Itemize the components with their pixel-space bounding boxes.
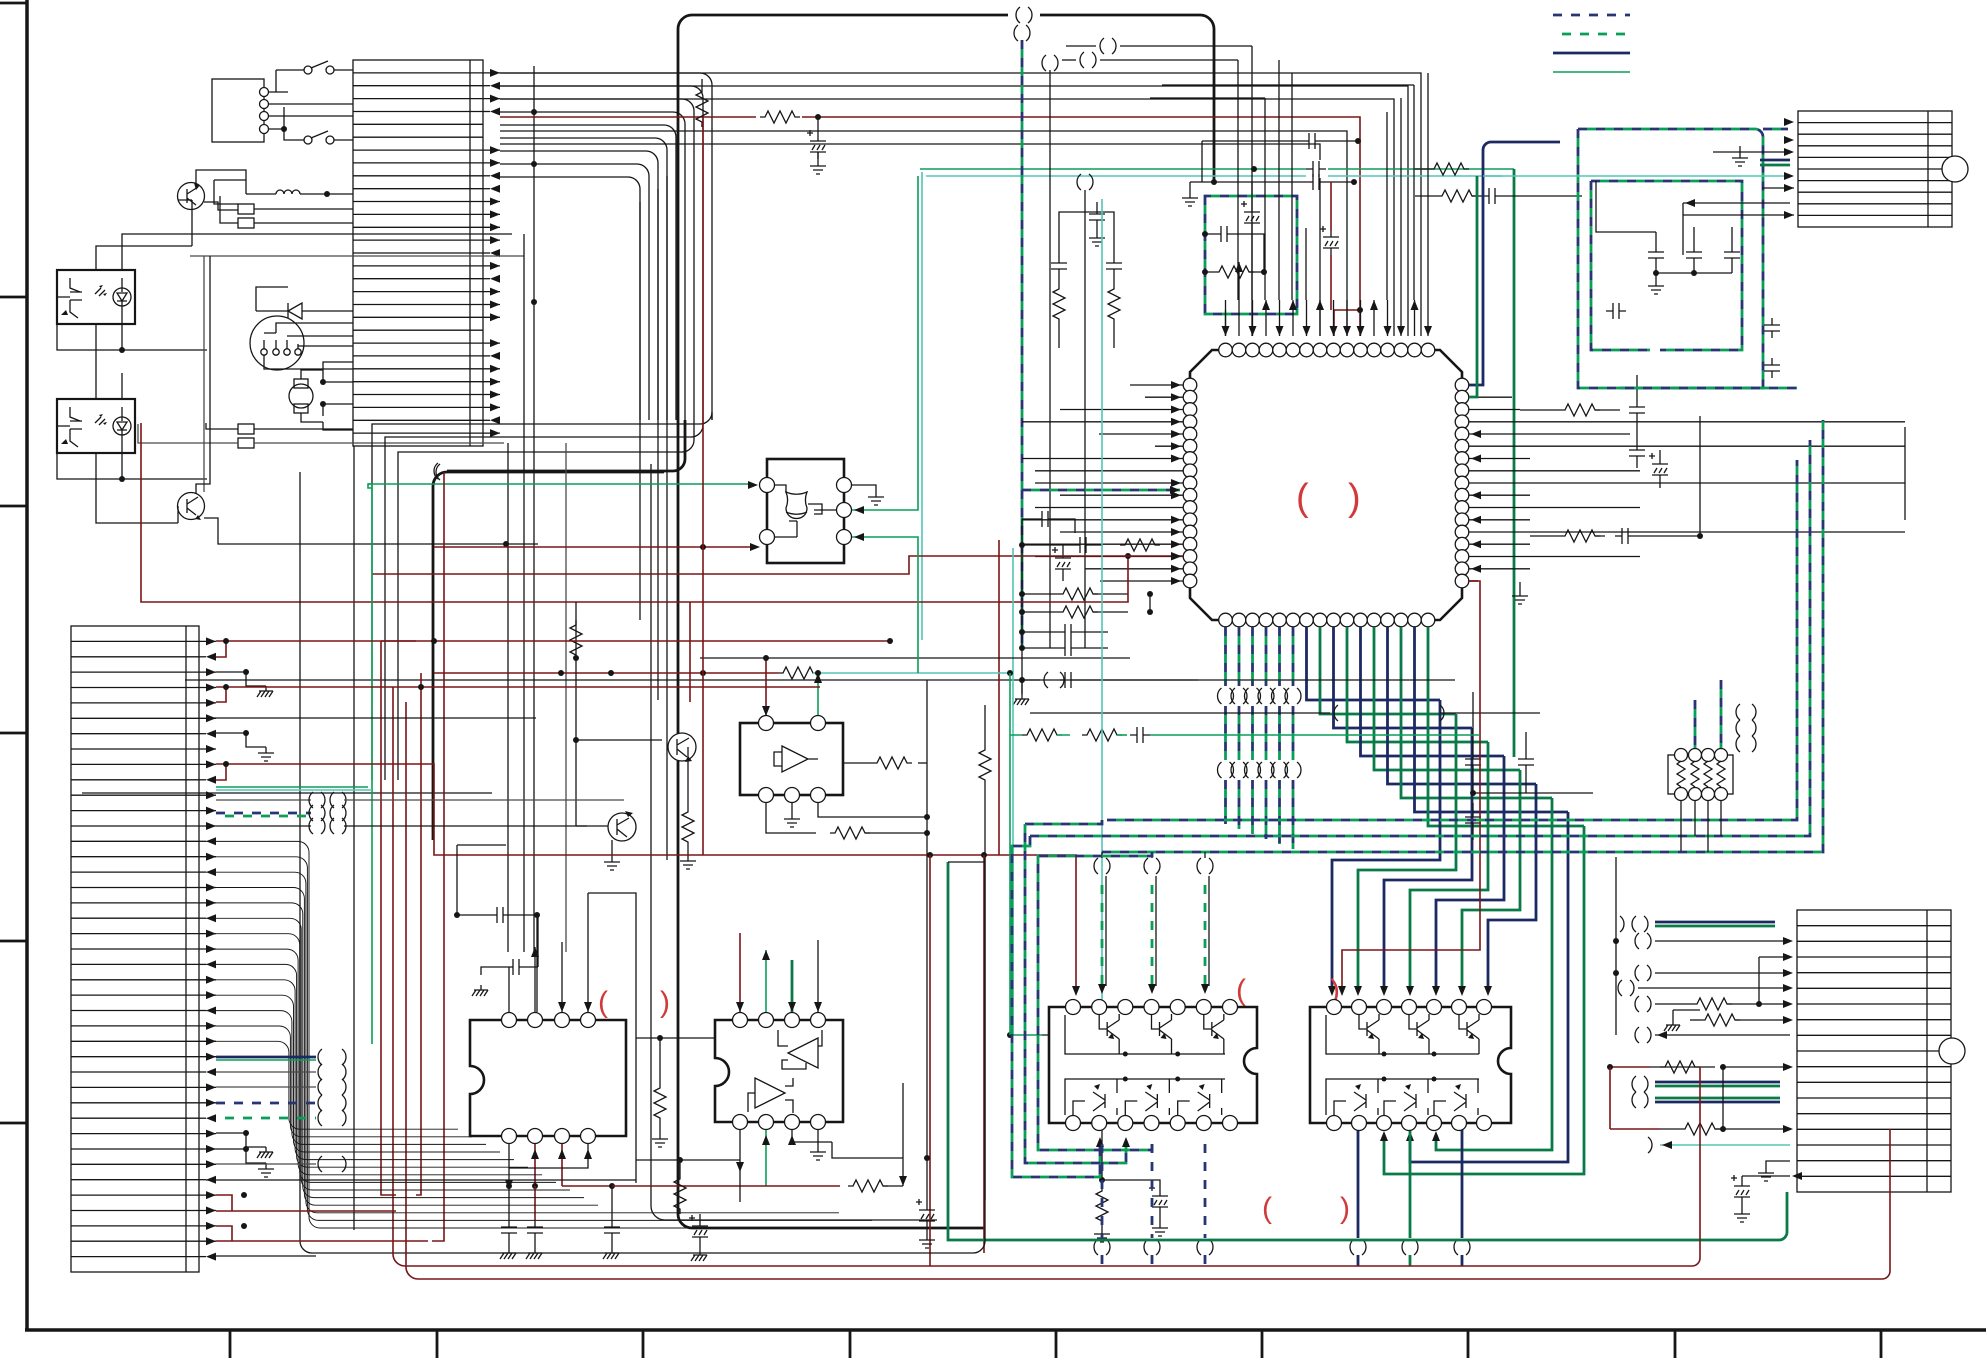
resistor R11 bbox=[766, 803, 816, 833]
optocoupler PC1 bbox=[57, 270, 135, 324]
cap C17 bbox=[1058, 624, 1078, 640]
node U3 top pins bbox=[1327, 1000, 1492, 1015]
wire U1 bottom solid drops bbox=[1307, 627, 1585, 826]
wire top rows to QFP bbox=[500, 73, 1421, 336]
cap C31 bbox=[1042, 1027, 1062, 1043]
wire maroon Q3 bbox=[689, 602, 691, 702]
cap C12 bbox=[1097, 212, 1114, 256]
node U1 bottom pins bbox=[1219, 613, 1435, 627]
node U5 top pins bbox=[733, 1013, 826, 1028]
transistor Q2 bbox=[178, 493, 205, 521]
cap C9 electrolytic maroon bbox=[1320, 226, 1339, 255]
wire maroon to U3 pin1 bbox=[1342, 581, 1480, 988]
node U1 top pins bbox=[1219, 343, 1435, 357]
wire dashed long horizontals bbox=[1107, 460, 1797, 820]
wire CN4 trunk vertical bbox=[1615, 857, 1617, 1035]
dashed below U2 bbox=[1101, 1144, 1104, 1238]
cap C33 electrolytic bbox=[1102, 1180, 1160, 1190]
dashed box upper mid bbox=[1205, 196, 1297, 314]
wire teal green horiz bbox=[926, 175, 1502, 177]
cap C7 bbox=[1202, 140, 1358, 142]
optocoupler PC2 bbox=[57, 399, 135, 453]
ground right of U1 bbox=[1519, 582, 1521, 590]
cap C37 bbox=[1764, 318, 1780, 338]
wire bus return west bbox=[372, 412, 712, 780]
node U3 bottom pins bbox=[1327, 1116, 1492, 1131]
cap C35 bbox=[1693, 232, 1695, 245]
resistor R12 bbox=[927, 673, 944, 900]
resistor R14 bbox=[918, 762, 927, 764]
maroon verticals left bbox=[381, 472, 444, 1215]
wire bus maroon bottom 2 bbox=[406, 702, 1890, 1279]
wire Q1 bbox=[196, 170, 246, 210]
wire dashed trunk top bbox=[1021, 40, 1024, 648]
cap C24 bbox=[1465, 810, 1481, 830]
ground U6 bbox=[791, 803, 793, 813]
wire teal x1013 bbox=[1012, 548, 1014, 1035]
IC U2 transistor array bbox=[1049, 1007, 1257, 1123]
node U7 pins bbox=[760, 478, 775, 493]
IC U6 opamp bbox=[740, 723, 843, 795]
wire black y658 bbox=[700, 657, 1130, 659]
cap C39 bbox=[1606, 303, 1626, 319]
cap C23 bbox=[1518, 752, 1534, 772]
cap C25 bbox=[457, 914, 490, 916]
IC U5 dual opamp bbox=[715, 1020, 843, 1122]
cap C13 bbox=[1089, 207, 1105, 227]
cap C10 bbox=[1214, 226, 1234, 242]
wire maroon y574 bbox=[372, 556, 1183, 574]
wire dashed box top right bbox=[1578, 129, 1763, 388]
resistor R8 bbox=[1560, 404, 1600, 416]
svg-text:(: ( bbox=[1262, 1192, 1272, 1225]
motor M2 bbox=[1942, 156, 1968, 182]
resistor R6 bbox=[1058, 588, 1098, 600]
opamp B in U5 bbox=[748, 1078, 793, 1113]
wire U1 left stubs bbox=[1022, 381, 1183, 585]
inductor L1 bbox=[214, 180, 353, 204]
wire RP1 nets bbox=[1694, 700, 1697, 748]
cap C6 bbox=[1190, 181, 1354, 183]
resistor R3 bbox=[1415, 195, 1437, 197]
relay contact K1 bbox=[238, 204, 353, 214]
cap C18 bbox=[1058, 640, 1078, 656]
motor M1 bbox=[289, 362, 353, 430]
wire CN4 stubs bbox=[1655, 921, 1775, 924]
wire dashed CN3 stubs bbox=[1763, 128, 1788, 131]
cap C21 electrolytic bbox=[1649, 453, 1668, 482]
cap C27 bbox=[508, 1204, 510, 1220]
wire dashed to QFP left bbox=[1022, 489, 1180, 492]
cap C32 electrolytic bbox=[926, 1158, 928, 1204]
wire thick bus return bbox=[447, 420, 685, 471]
wire left stub rail bbox=[1021, 519, 1023, 694]
IC U7 gate bbox=[767, 459, 844, 563]
cap C20 bbox=[1629, 443, 1645, 463]
switch SW2 bbox=[268, 107, 353, 144]
motor M3 bbox=[1939, 1038, 1965, 1064]
cap C34 bbox=[1655, 232, 1657, 245]
legend dashed green wire bbox=[1553, 33, 1630, 36]
node U6 pins bbox=[759, 716, 774, 731]
transistor Q1 bbox=[178, 183, 205, 210]
wire CN4 gnd cap bbox=[1766, 1161, 1790, 1167]
cap C28 bbox=[534, 1186, 536, 1220]
maroon vertical x703 bbox=[702, 117, 704, 855]
cap C26 bbox=[506, 959, 526, 975]
svg-text:): ) bbox=[660, 986, 670, 1019]
cap C38 bbox=[1764, 358, 1780, 378]
wire U4 pin drops bbox=[534, 947, 536, 1012]
wire opto nets bbox=[122, 234, 512, 350]
relay contact K3 bbox=[206, 423, 353, 434]
legend solid green wire bbox=[1553, 71, 1630, 73]
node U2 top pins bbox=[1066, 1000, 1238, 1015]
maroon net CN2 to U2 bbox=[434, 763, 1076, 988]
node U5 bottom pins bbox=[733, 1115, 826, 1130]
wire maroon to U7 bbox=[434, 546, 752, 548]
wire nv gt to CN3 bbox=[1469, 142, 1560, 385]
diode D1 bbox=[256, 287, 353, 319]
cap C11 bbox=[1059, 212, 1097, 256]
transistor cells U3 bbox=[1334, 1014, 1479, 1115]
wire trunk verticals bbox=[508, 66, 534, 952]
cap C8 electrolytic bbox=[1241, 201, 1260, 230]
svg-text:(: ( bbox=[598, 986, 608, 1019]
wire U5 pin nets bbox=[759, 1185, 761, 1187]
wire U1 right stubs bbox=[1469, 397, 1905, 581]
dashed drops to U2 bbox=[1101, 852, 1103, 858]
wire mid horizontals bbox=[185, 679, 1040, 681]
resistor R16 bbox=[679, 1160, 681, 1174]
node CN2 pin arrows bbox=[199, 637, 216, 1260]
resistor R10 bbox=[689, 657, 691, 659]
wire CN4 bottom green bbox=[948, 862, 1787, 1240]
node U4 top pins bbox=[502, 1013, 596, 1028]
cap C29 bbox=[562, 1185, 612, 1187]
cap C16 electrolytic bbox=[1052, 547, 1071, 576]
wire maroon y602 bbox=[141, 423, 1128, 602]
wire maroon vertical x999 bbox=[998, 540, 1000, 855]
relay contact K4 bbox=[138, 424, 504, 448]
relay contact K2 bbox=[220, 196, 353, 228]
cap C14 bbox=[1035, 511, 1055, 527]
resistor R2 bbox=[701, 79, 703, 87]
wire switchbox rows bbox=[268, 104, 353, 116]
wire CN2 fan bundle bbox=[206, 841, 905, 1228]
wire U4 bottom nets bbox=[508, 1144, 510, 1204]
wire maroon bottom right verticals bbox=[1610, 1067, 1890, 1135]
transistor Q3 bbox=[668, 733, 696, 762]
resistor pack RP1 bbox=[1668, 755, 1733, 794]
node CN1 pin arrows bbox=[483, 69, 500, 437]
node U4 bottom pins bbox=[502, 1129, 596, 1144]
wire QFP top pin drops bbox=[1222, 262, 1433, 336]
wire right trunk to CN4 bbox=[1904, 427, 1906, 520]
resistor R5 bbox=[1214, 266, 1254, 278]
wire maroon bridge bbox=[1334, 310, 1360, 336]
node U1 left pins bbox=[1183, 378, 1197, 588]
resistor R17 bbox=[760, 1185, 840, 1187]
svg-text:(: ( bbox=[1296, 477, 1309, 519]
transistor cells U2 bbox=[1073, 1014, 1224, 1115]
IC U1 microcontroller QFP bbox=[1190, 350, 1462, 620]
wire green to U7 bbox=[371, 488, 373, 1044]
xor gate in U7 bbox=[786, 492, 807, 519]
cap C22 bbox=[1465, 752, 1481, 772]
cap C30 electrolytic bbox=[699, 1214, 701, 1220]
cap C5 on green bbox=[1306, 160, 1328, 178]
wire U5 bottom nets bbox=[739, 1130, 741, 1154]
IC U4 bbox=[470, 1020, 626, 1136]
legend dashed navy wire bbox=[1553, 14, 1630, 17]
wire maroon y673 bbox=[434, 672, 778, 674]
wire green R13 bbox=[1009, 672, 1011, 674]
resistor R15 bbox=[659, 1038, 661, 1083]
ground U7 bbox=[852, 485, 876, 491]
node U1 right pins bbox=[1455, 378, 1469, 588]
opamp triangle U6 bbox=[774, 746, 818, 772]
resistor R4 bbox=[1415, 168, 1429, 170]
wire solid below U3 bbox=[1357, 1130, 1360, 1238]
IC U3 transistor array bbox=[1310, 1007, 1511, 1123]
cap C15 bbox=[1073, 537, 1093, 553]
node U2 bottom pins bbox=[1066, 1116, 1238, 1131]
connector CN3 bbox=[1798, 111, 1952, 227]
svg-text:): ) bbox=[1340, 1192, 1350, 1225]
rotary switch RS1 bbox=[250, 316, 353, 370]
wire bus black bottom bbox=[300, 472, 985, 1253]
wire thick bus bbox=[692, 14, 1008, 17]
wire solid staircase right bbox=[1328, 700, 1584, 1174]
wire U6 nets bbox=[576, 658, 662, 740]
connector CN2 bbox=[71, 626, 199, 1272]
dashed nested loops left of U2 bbox=[1012, 836, 1100, 1177]
resistor R7 bbox=[1058, 606, 1098, 618]
svg-text:(: ( bbox=[1236, 974, 1246, 1007]
wire U1 bottom dashed drops bbox=[1224, 627, 1227, 686]
transistor Q4 bbox=[608, 811, 636, 841]
resistor R9 bbox=[1560, 530, 1600, 542]
switch SW1 bbox=[268, 61, 353, 92]
connector CN4 bbox=[1797, 910, 1951, 1192]
wire CN2 stubs bbox=[216, 641, 226, 657]
switch box S1 bbox=[212, 79, 269, 142]
wire bus maroon bottom 1 bbox=[393, 687, 1700, 1266]
wire maroon top bbox=[500, 117, 1360, 336]
wire U6 pin nets bbox=[765, 658, 767, 715]
wire green vertical major bbox=[1513, 169, 1516, 757]
cap C19 bbox=[1058, 672, 1078, 688]
wire CN2 lower stubs bbox=[216, 1056, 316, 1059]
wire CN3 stubs bbox=[1713, 151, 1790, 153]
wire mid verticals bbox=[831, 1141, 833, 1143]
opamp A in U5 bbox=[778, 1030, 822, 1069]
wire bus bundle CN1 east bbox=[500, 73, 712, 420]
resistor R18 bbox=[1101, 1035, 1103, 1180]
connector CN1 bbox=[353, 60, 483, 446]
cap C36 bbox=[1731, 232, 1733, 245]
legend solid navy wire bbox=[1553, 52, 1630, 55]
svg-text:): ) bbox=[1348, 477, 1361, 519]
